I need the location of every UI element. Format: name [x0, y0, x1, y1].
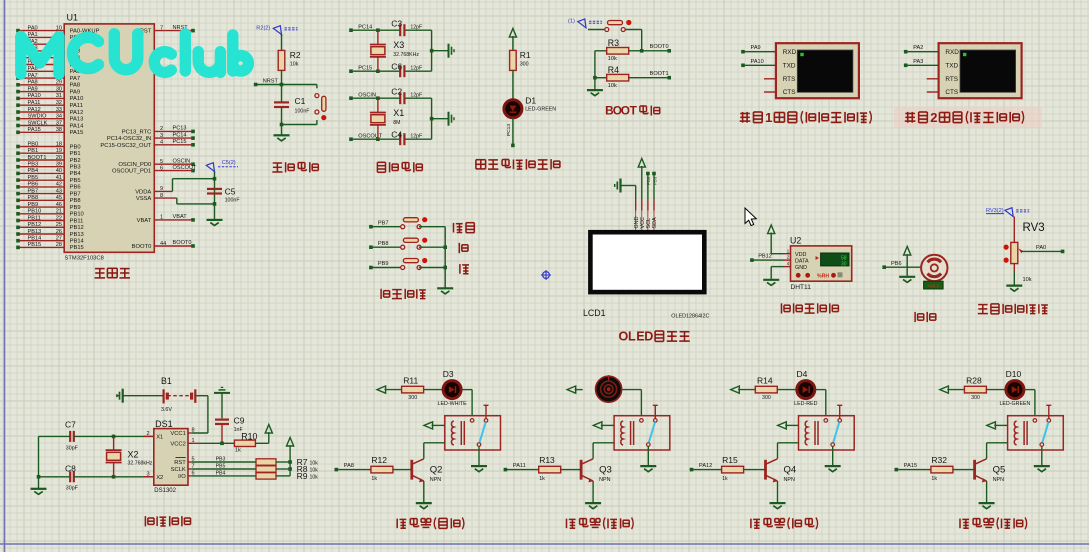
svg-text:PB5: PB5 [70, 178, 81, 184]
svg-text:PB12: PB12 [758, 254, 772, 260]
svg-text:32.768KHz: 32.768KHz [393, 52, 419, 58]
svg-text:45: 45 [56, 195, 62, 201]
svg-text:PB11: PB11 [70, 218, 84, 224]
svg-text:PC13: PC13 [173, 126, 187, 132]
svg-text:PA15: PA15 [904, 463, 917, 469]
svg-text:PC14-OSC32_IN: PC14-OSC32_IN [107, 136, 151, 142]
svg-text:PB10: PB10 [70, 212, 84, 218]
svg-text:C1: C1 [295, 96, 306, 106]
svg-text:LED-GREEN: LED-GREEN [999, 401, 1030, 407]
svg-text:PB5: PB5 [28, 175, 39, 181]
svg-text:PB10: PB10 [28, 209, 42, 215]
svg-text:BOOT1: BOOT1 [650, 71, 669, 77]
svg-text:Q5: Q5 [993, 464, 1006, 475]
svg-text:OSCOUT_PD1: OSCOUT_PD1 [112, 169, 151, 175]
svg-text:D1: D1 [525, 95, 536, 105]
svg-text:12pF: 12pF [410, 134, 422, 140]
svg-text:46: 46 [56, 202, 62, 208]
svg-text:37: 37 [56, 120, 62, 126]
svg-text:PB13: PB13 [28, 229, 42, 235]
svg-text:19: 19 [56, 148, 62, 154]
svg-text:CTS: CTS [945, 89, 958, 96]
svg-text:RXD: RXD [945, 49, 959, 56]
svg-text:RTS: RTS [783, 76, 796, 83]
svg-text:PA9: PA9 [751, 45, 761, 51]
svg-text:U1: U1 [67, 13, 79, 23]
svg-text:40: 40 [56, 168, 62, 174]
svg-text:BOOT1: BOOT1 [28, 155, 47, 161]
svg-text:PB1: PB1 [28, 148, 39, 154]
svg-text:300: 300 [971, 395, 980, 401]
svg-text:X3: X3 [393, 40, 404, 50]
svg-text:RST: RST [174, 460, 186, 466]
svg-text:1: 1 [765, 110, 772, 125]
svg-text:26: 26 [56, 229, 62, 235]
svg-text:PA10: PA10 [70, 96, 84, 102]
svg-text:X1: X1 [156, 434, 163, 440]
svg-text:RTS: RTS [945, 76, 958, 83]
svg-text:VDD: VDD [795, 252, 806, 258]
svg-text:D3: D3 [443, 369, 454, 379]
svg-text:31: 31 [56, 93, 62, 99]
svg-text:39: 39 [56, 162, 62, 168]
svg-text:C3: C3 [391, 19, 402, 29]
svg-text:C5: C5 [225, 187, 236, 197]
svg-text:PC15: PC15 [358, 65, 372, 71]
svg-text:OSCIN: OSCIN [358, 92, 376, 98]
svg-text:Q3: Q3 [599, 464, 612, 475]
svg-text:PA0: PA0 [1036, 245, 1046, 251]
svg-text:X2: X2 [156, 475, 163, 481]
svg-text:OSCIN_PD0: OSCIN_PD0 [118, 162, 151, 168]
svg-text:PC13: PC13 [506, 124, 512, 136]
svg-text:30: 30 [56, 86, 62, 92]
svg-text:41: 41 [56, 175, 62, 181]
svg-text:NPN: NPN [993, 477, 1004, 483]
svg-text:PB7: PB7 [70, 191, 81, 197]
svg-text:PA8: PA8 [28, 80, 38, 86]
svg-text:34: 34 [56, 114, 62, 120]
svg-text:PA9: PA9 [70, 89, 81, 95]
svg-text:RV3: RV3 [1023, 222, 1045, 234]
svg-text:43: 43 [56, 188, 62, 194]
svg-text:STM32F103C8: STM32F103C8 [65, 255, 104, 261]
svg-text:SCLK: SCLK [171, 467, 186, 473]
svg-text:I/O: I/O [178, 474, 186, 480]
svg-text:PB3: PB3 [28, 162, 39, 168]
svg-text:R2(2): R2(2) [256, 25, 270, 31]
svg-text:100nF: 100nF [225, 197, 241, 203]
svg-text:1k: 1k [722, 476, 728, 482]
svg-text:PA15: PA15 [70, 130, 84, 136]
svg-text:PB12: PB12 [28, 222, 42, 228]
svg-text:L: L [628, 330, 636, 344]
svg-text:PB5: PB5 [216, 464, 226, 470]
svg-text:PA8: PA8 [344, 463, 354, 469]
svg-text:PB9: PB9 [70, 205, 81, 211]
svg-text:21: 21 [56, 209, 62, 215]
svg-text:C5(2): C5(2) [222, 160, 236, 166]
svg-text:38: 38 [56, 127, 62, 133]
svg-text:32.768kHz: 32.768kHz [128, 461, 153, 467]
svg-text:PB1: PB1 [70, 151, 81, 157]
svg-text:PA3: PA3 [913, 59, 923, 65]
svg-text:VSSA: VSSA [136, 196, 152, 202]
svg-text:C9: C9 [234, 416, 245, 426]
svg-text:NPN: NPN [599, 477, 610, 483]
svg-text:PA12: PA12 [699, 463, 712, 469]
svg-text:R11: R11 [403, 376, 418, 386]
svg-text:B1: B1 [161, 376, 172, 386]
svg-text:PB8: PB8 [378, 241, 389, 247]
svg-text:R10: R10 [241, 432, 257, 442]
svg-text:D4: D4 [797, 369, 808, 379]
svg-text:10k: 10k [310, 461, 319, 467]
svg-text:O: O [621, 104, 630, 118]
svg-text:8: 8 [192, 428, 195, 434]
svg-text:PA11: PA11 [70, 103, 83, 109]
svg-text:PB6: PB6 [891, 261, 902, 267]
svg-text:PB7: PB7 [378, 220, 389, 226]
svg-text:DS1: DS1 [155, 419, 173, 429]
svg-text:PC15-OSC32_OUT: PC15-OSC32_OUT [100, 143, 151, 149]
svg-text:VCC1: VCC1 [170, 431, 185, 437]
svg-text:%RH: %RH [817, 274, 829, 280]
svg-text:C8: C8 [65, 463, 76, 473]
svg-text:1k: 1k [235, 448, 241, 454]
svg-text:OSCOUT: OSCOUT [173, 165, 198, 171]
svg-text:300: 300 [762, 395, 771, 401]
svg-text:PA10: PA10 [28, 93, 41, 99]
svg-text:R28: R28 [966, 376, 982, 386]
svg-text:PB8: PB8 [70, 198, 81, 204]
svg-text:C4: C4 [391, 130, 402, 140]
svg-text:R9: R9 [297, 471, 308, 481]
svg-text:PA10: PA10 [751, 59, 764, 65]
svg-text:10k: 10k [290, 61, 299, 67]
svg-text:C6: C6 [391, 62, 402, 72]
svg-text:PA14: PA14 [70, 123, 85, 129]
svg-text:Q2: Q2 [430, 464, 443, 475]
svg-text:PB3: PB3 [216, 457, 226, 463]
svg-text:PA15: PA15 [28, 127, 41, 133]
svg-text:PA12: PA12 [28, 107, 41, 113]
svg-text:U2: U2 [790, 235, 801, 245]
svg-text:300: 300 [520, 61, 529, 67]
svg-text:PA11: PA11 [28, 100, 41, 106]
svg-text:28: 28 [56, 242, 62, 248]
svg-text:TXD: TXD [783, 63, 796, 70]
svg-text:25: 25 [56, 222, 62, 228]
svg-text:10: 10 [56, 25, 62, 31]
svg-text:NPN: NPN [784, 477, 795, 483]
svg-text:C2: C2 [391, 87, 402, 97]
svg-text:CTS: CTS [783, 89, 796, 96]
svg-text:PA0: PA0 [28, 25, 38, 31]
svg-text:R13: R13 [539, 455, 555, 465]
svg-text:PB14: PB14 [70, 239, 85, 245]
svg-text:PB13: PB13 [70, 232, 84, 238]
svg-text:PC14: PC14 [173, 132, 187, 138]
svg-text:GND: GND [634, 216, 640, 228]
svg-text:42: 42 [56, 182, 62, 188]
svg-text:+88.8: +88.8 [927, 283, 939, 288]
svg-text:PB4: PB4 [216, 471, 226, 477]
svg-text:1k: 1k [371, 476, 377, 482]
svg-text:18: 18 [56, 141, 62, 147]
svg-text:PC13_RTC: PC13_RTC [122, 129, 152, 135]
svg-text:PB6: PB6 [70, 185, 81, 191]
svg-text:PB8: PB8 [646, 176, 651, 185]
svg-text:BOOT0: BOOT0 [650, 44, 669, 50]
svg-text:PB12: PB12 [70, 225, 84, 231]
svg-text:PB9: PB9 [652, 176, 657, 185]
svg-text:PB14: PB14 [28, 236, 42, 242]
svg-text:GND: GND [795, 265, 807, 271]
svg-text:DHT11: DHT11 [791, 284, 812, 291]
svg-text:PB4: PB4 [70, 171, 82, 177]
svg-text:VBAT: VBAT [173, 214, 188, 220]
svg-text:R32: R32 [931, 455, 947, 465]
svg-text:T: T [630, 104, 638, 118]
svg-text:X1: X1 [393, 108, 404, 118]
svg-text:PA12: PA12 [70, 110, 84, 116]
svg-text:30: 30 [841, 261, 847, 267]
svg-text:12pF: 12pF [410, 25, 422, 31]
svg-text:NPN: NPN [430, 477, 441, 483]
svg-text:(1): (1) [568, 18, 575, 24]
svg-text:12pF: 12pF [410, 93, 422, 99]
svg-text:10k: 10k [608, 56, 617, 62]
svg-text:VBAT: VBAT [137, 218, 152, 224]
svg-text:30pF: 30pF [66, 446, 79, 452]
svg-text:20: 20 [56, 155, 62, 161]
svg-text:PA11: PA11 [513, 463, 526, 469]
svg-text:PB15: PB15 [70, 245, 84, 251]
svg-text:SWDIO: SWDIO [28, 114, 48, 120]
svg-text:PA13: PA13 [70, 117, 84, 123]
svg-text:PB0: PB0 [28, 141, 39, 147]
svg-text:PB15: PB15 [28, 242, 42, 248]
svg-text:100nF: 100nF [295, 108, 311, 114]
svg-text:LCD1: LCD1 [583, 308, 606, 318]
svg-text:LED-WHITE: LED-WHITE [438, 401, 468, 407]
svg-text:PB3: PB3 [70, 165, 81, 171]
svg-text:8M: 8M [393, 120, 400, 126]
svg-text:SCL: SCL [646, 218, 652, 229]
svg-text:R4: R4 [608, 65, 619, 75]
svg-text:PA1: PA1 [28, 32, 38, 38]
svg-text:SWCLK: SWCLK [28, 120, 48, 126]
svg-text:PB11: PB11 [28, 215, 41, 221]
svg-text:1k: 1k [539, 476, 545, 482]
svg-text:OSCIN: OSCIN [173, 158, 191, 164]
svg-text:10k: 10k [608, 83, 617, 89]
svg-text:PB7: PB7 [28, 188, 39, 194]
svg-text:PC14: PC14 [358, 24, 372, 30]
svg-text:29: 29 [56, 80, 62, 86]
svg-text:O: O [619, 330, 629, 344]
svg-text:R3: R3 [608, 38, 619, 48]
svg-text:10k: 10k [1023, 277, 1032, 283]
svg-text:VCC: VCC [640, 217, 646, 228]
svg-text:RXD: RXD [783, 49, 797, 56]
svg-text:PB6: PB6 [28, 182, 39, 188]
svg-text:30pF: 30pF [66, 485, 79, 491]
svg-text:PA9: PA9 [28, 86, 38, 92]
svg-text:PA7: PA7 [70, 76, 81, 82]
svg-text:SDA: SDA [652, 217, 658, 228]
svg-text:TXD: TXD [945, 63, 958, 70]
svg-text:X2: X2 [128, 449, 139, 459]
svg-text:1k: 1k [931, 476, 937, 482]
svg-text:PA8: PA8 [70, 83, 81, 89]
svg-text:NRST: NRST [263, 79, 279, 85]
svg-text:LED-GREEN: LED-GREEN [525, 107, 556, 113]
svg-text:Q4: Q4 [784, 464, 797, 475]
svg-text:R1: R1 [520, 50, 531, 60]
svg-text:PB2: PB2 [70, 158, 81, 164]
svg-text:PB9: PB9 [28, 202, 39, 208]
svg-text:R15: R15 [722, 455, 738, 465]
svg-text:VDDA: VDDA [135, 189, 151, 195]
svg-text:R12: R12 [371, 455, 387, 465]
svg-text:10k: 10k [310, 475, 319, 481]
svg-text:D: D [644, 330, 653, 344]
svg-text:BOOT0: BOOT0 [132, 244, 152, 250]
svg-text:C7: C7 [65, 420, 76, 430]
svg-text:PA2: PA2 [913, 45, 923, 51]
svg-text:D10: D10 [1006, 369, 1022, 379]
svg-text:10k: 10k [310, 468, 319, 474]
svg-text:PB0: PB0 [70, 144, 81, 150]
svg-text:300: 300 [408, 395, 417, 401]
svg-text:32: 32 [56, 100, 62, 106]
svg-text:LED-RED: LED-RED [794, 401, 817, 407]
svg-text:OLED12864I2C: OLED12864I2C [671, 313, 709, 319]
svg-text:BOOT0: BOOT0 [173, 240, 192, 246]
svg-text:VCC2: VCC2 [170, 441, 185, 447]
svg-text:DS1302: DS1302 [154, 488, 176, 494]
svg-text:PB8: PB8 [28, 195, 39, 201]
svg-text:PC15: PC15 [173, 139, 187, 145]
svg-text:22: 22 [56, 215, 62, 221]
svg-text:PA7: PA7 [28, 73, 38, 79]
svg-text:R14: R14 [757, 376, 773, 386]
svg-text:DATA: DATA [795, 259, 809, 265]
svg-text:27: 27 [56, 236, 62, 242]
svg-text:2: 2 [930, 110, 937, 125]
svg-text:PB9: PB9 [378, 261, 389, 267]
svg-text:12pF: 12pF [410, 66, 422, 72]
svg-text:33: 33 [56, 107, 62, 113]
svg-text:3.6V: 3.6V [161, 407, 172, 413]
svg-text:PB4: PB4 [28, 168, 39, 174]
svg-text:R2: R2 [290, 50, 301, 60]
